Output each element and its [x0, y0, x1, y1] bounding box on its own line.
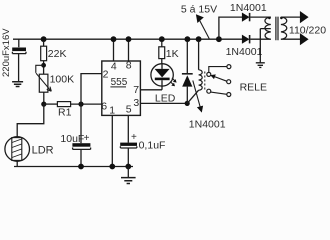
wire primary top to mains arrow: [281, 16, 300, 18]
wire 100K to node: [43, 92, 45, 104]
svg-text:100K: 100K: [50, 74, 75, 86]
svg-text:6: 6: [101, 101, 107, 113]
resistor 1K: [161, 41, 163, 47]
potentiometer 100K wiper arrow: [36, 73, 51, 91]
node junction pins2-6/R1/10uF: [78, 102, 83, 107]
node junction rail/diode D3: [185, 36, 191, 42]
svg-text:1: 1: [109, 104, 115, 116]
capacitor C1 220uF top plate: [12, 48, 26, 52]
op-amp U1 555 body: [102, 61, 141, 115]
svg-text:10uF: 10uF: [60, 133, 84, 145]
node junction rail/1K: [159, 36, 165, 42]
wire 10uF to bottom rail: [80, 149, 82, 166]
node junction rail/22K: [41, 36, 47, 42]
mains arrow top: [300, 11, 309, 23]
ground bottom: [127, 167, 129, 178]
transformer phase dot right: [280, 17, 283, 20]
wire pin 7 to LED: [140, 89, 162, 91]
svg-text:7: 7: [133, 84, 139, 96]
svg-text:8: 8: [126, 60, 132, 72]
supply input arrow: [200, 21, 209, 39]
LED D4 body: [151, 64, 173, 86]
wire C1 to ground: [18, 54, 20, 82]
wire branch up to D1: [219, 17, 243, 39]
node junction pin8/rail: [126, 36, 132, 42]
wire pin 3 to node: [140, 102, 187, 104]
wire LDR to bottom rail: [16, 161, 18, 166]
diode D1 1N4001: [242, 13, 250, 22]
svg-text:+: +: [131, 132, 137, 143]
relay mechanical link dashed: [204, 72, 206, 91]
diode D2 1N4001: [242, 35, 250, 44]
capacitor 0,1uF top plate: [120, 143, 137, 146]
label arrow to 1N4001: [193, 81, 200, 108]
wire bottom ground rail: [14, 166, 133, 168]
relay contact set 2: [207, 89, 211, 93]
svg-text:220uFx16V: 220uFx16V: [1, 28, 12, 77]
svg-text:5: 5: [126, 104, 132, 116]
relay coil: [198, 41, 200, 70]
capacitor 10uF top plate: [72, 143, 90, 147]
wire pin 4 to rail: [113, 39, 115, 61]
wire node to LDR: [17, 104, 44, 137]
svg-text:2: 2: [103, 68, 109, 80]
wire pin 8 to rail: [128, 39, 130, 61]
transformer T1 primary coil: [281, 17, 287, 39]
wire pin 5 to 0,1uF: [127, 115, 129, 142]
capacitor C1 220uFx16V lead from rail: [18, 39, 20, 47]
mains arrow bottom: [300, 33, 309, 45]
LDR body: [5, 137, 30, 162]
node junction rail/diode branch: [216, 36, 222, 42]
LED light arrows: [170, 78, 175, 85]
node junction 100K/R1/LDR: [41, 102, 46, 107]
svg-text:1N4001: 1N4001: [189, 118, 226, 130]
node junction 0,1uF/bottom rail: [125, 164, 131, 170]
svg-text:RELE: RELE: [240, 82, 267, 94]
wire 100K wiper loop: [36, 65, 44, 73]
potentiometer 100K body: [39, 74, 48, 92]
ground left: [12, 82, 23, 87]
ground right: [256, 63, 265, 68]
node junction rail/relay coil: [196, 36, 202, 42]
capacitor 10uF bottom plate: [73, 148, 91, 150]
wire 10uF branch: [80, 104, 82, 143]
svg-text:110/220: 110/220: [289, 25, 326, 37]
node junction pin4/rail: [111, 36, 117, 42]
node junction 22K/100K wiper loop: [41, 63, 46, 68]
svg-text:R1: R1: [58, 107, 72, 119]
node junction 10uF/bottom rail: [78, 164, 84, 170]
svg-text:3: 3: [133, 97, 139, 109]
node junction pin1/bottom rail: [109, 164, 115, 170]
resistor R1: [44, 103, 58, 105]
transformer phase dot left: [268, 17, 271, 20]
svg-text:22K: 22K: [48, 48, 67, 60]
wire top positive rail: [13, 38, 242, 40]
capacitor 0,1uF bottom plate: [120, 146, 136, 148]
wire 0,1uF to bottom rail: [127, 148, 129, 167]
wire coil to node: [187, 90, 198, 103]
wire pin 2: [81, 74, 102, 105]
wire pin 1 to bottom rail: [111, 115, 113, 166]
wire primary bottom to mains arrow: [281, 38, 300, 40]
relay contact set 1: [209, 67, 227, 73]
capacitor C1 220uF bottom plate: [12, 52, 26, 54]
svg-text:+: +: [84, 133, 90, 144]
svg-text:1N4001: 1N4001: [230, 2, 267, 14]
svg-text:555: 555: [111, 77, 128, 88]
svg-text:0,1uF: 0,1uF: [139, 139, 166, 151]
svg-text:1K: 1K: [166, 48, 179, 60]
resistor 22K body: [43, 41, 45, 46]
svg-text:LDR: LDR: [32, 144, 54, 156]
diode D3 1N4001 across relay: [186, 41, 188, 73]
svg-text:5 á 15V: 5 á 15V: [181, 4, 217, 16]
svg-text:LED: LED: [155, 92, 176, 104]
node junction pin3/diode/relay: [185, 101, 190, 106]
transformer T1 secondary coil: [265, 17, 271, 39]
svg-text:4: 4: [111, 60, 117, 72]
svg-text:1N4001: 1N4001: [226, 46, 263, 58]
transformer core: [276, 17, 278, 41]
wire transformer tap to ground: [260, 29, 271, 63]
